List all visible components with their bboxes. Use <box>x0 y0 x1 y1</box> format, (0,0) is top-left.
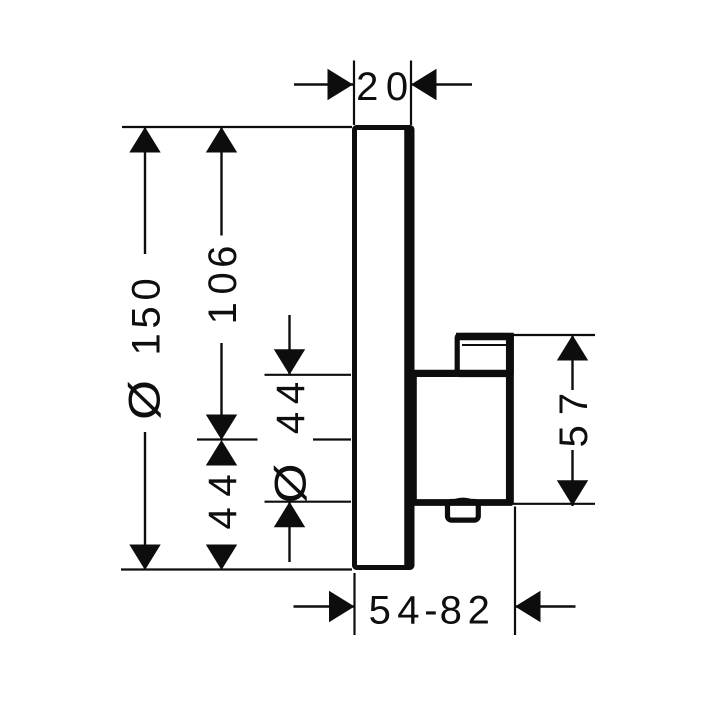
svg-text:4: 4 <box>269 412 313 434</box>
svg-text:5: 5 <box>552 425 596 447</box>
handle bottom edge thick band <box>414 499 512 506</box>
svg-text:5: 5 <box>369 589 391 633</box>
step top edge thick band <box>456 333 514 340</box>
plate outline (escutcheon side view) <box>355 128 413 568</box>
svg-text:2: 2 <box>468 589 490 633</box>
svg-text:4: 4 <box>201 474 245 496</box>
dim 20 right tail <box>411 83 472 85</box>
arrow d44 top (down, outside) <box>274 349 305 375</box>
svg-text:-: - <box>424 589 437 633</box>
arrow 54-82 left (points right) <box>329 591 355 622</box>
svg-text:0: 0 <box>125 278 169 300</box>
arrow 20 right (points left) <box>411 69 437 100</box>
arrow 57 bottom (down) <box>557 480 588 506</box>
step inner thin line <box>462 344 506 346</box>
arrow 54-82 right (points left) <box>515 591 541 622</box>
svg-text:4: 4 <box>397 589 419 633</box>
svg-text:2: 2 <box>356 65 378 109</box>
bottom tab <box>448 502 479 521</box>
dim 54-82 right tail <box>515 605 576 607</box>
svg-text:1: 1 <box>125 333 169 355</box>
ext line top-left of plate (20 dim) <box>353 61 355 126</box>
svg-text:1: 1 <box>201 302 245 324</box>
svg-text:Ø: Ø <box>120 380 170 420</box>
tab top arc bump <box>450 498 477 501</box>
arrow 57 top (up) <box>557 335 588 361</box>
54-82 right ext line <box>514 507 516 636</box>
arrow 44 top (up, bowtie bottom) <box>206 440 237 466</box>
handle top edge thick band <box>414 370 512 377</box>
dim 150 line upper seg <box>144 127 146 254</box>
54-82 left ext line <box>353 573 355 635</box>
bottom ext line y569.5 <box>121 568 352 570</box>
arrow d44 bottom (up, outside) <box>274 502 305 528</box>
dim d44 line above top arrow <box>288 315 290 374</box>
d44 bottom ext line <box>265 501 352 503</box>
svg-text:0: 0 <box>386 65 408 109</box>
dim 54-82 left tail <box>294 605 355 607</box>
dim d44 line below bottom arrow <box>288 502 290 562</box>
ext line top-right of plate (20 dim) <box>410 61 412 126</box>
svg-text:4: 4 <box>269 382 313 404</box>
dim 150 line lower seg <box>144 432 146 570</box>
svg-text:7: 7 <box>552 393 596 415</box>
svg-text:5: 5 <box>125 306 169 328</box>
svg-text:8: 8 <box>440 589 462 633</box>
arrow 150 bottom (down) <box>129 545 160 571</box>
57 top ext line <box>510 334 595 336</box>
dim 57 line lower seg <box>571 450 573 506</box>
centerline y440 left seg <box>197 438 258 440</box>
handle body <box>414 373 510 503</box>
57 bottom ext line <box>505 503 595 505</box>
plate right edge extra thickness <box>404 128 410 568</box>
svg-text:0: 0 <box>201 272 245 294</box>
dim 20 left tail <box>294 83 353 85</box>
arrow 20 left (points right) <box>328 69 354 100</box>
arrow 150 top (up) <box>129 127 160 153</box>
top ext line y127 <box>122 126 352 128</box>
arrow 106 bottom (down, bowtie top) <box>206 415 237 441</box>
arrow 44 bottom (down) <box>206 545 237 571</box>
d44 top ext line <box>265 374 352 376</box>
dim 57 line upper seg <box>571 335 573 390</box>
svg-text:Ø: Ø <box>266 463 316 503</box>
svg-text:6: 6 <box>201 246 245 268</box>
arrow 106 top (up) <box>206 127 237 153</box>
handle top step <box>457 336 511 375</box>
svg-text:4: 4 <box>201 507 245 529</box>
dim 106 line upper seg <box>220 127 222 236</box>
handle right edge thick band <box>506 335 514 504</box>
centerline y440 right seg <box>313 438 351 440</box>
dim 106 line lower seg <box>220 343 222 440</box>
